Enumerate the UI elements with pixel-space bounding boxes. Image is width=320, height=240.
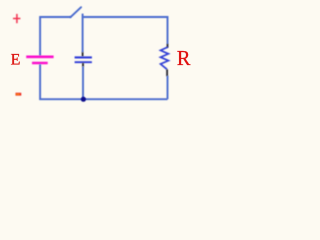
wire: top-right segment and right branch upper [83,17,168,44]
junction dot (capacitor / bottom wire) [81,97,86,102]
wire: top-left segment and left branch upper [40,17,71,56]
label + (battery positive) [13,14,20,23]
resistor R zigzag [161,47,169,69]
switch S (open blade) [71,7,82,17]
wire: left branch lower and bottom segment [40,64,167,99]
wire: capacitor lower lead [82,66,84,99]
capacitor bottom plate [75,61,92,63]
resistor R top lead (black) [167,44,169,48]
svg-text:E: E [11,51,21,68]
wire: right branch lower [167,76,169,99]
label - (battery negative) [16,93,22,96]
capacitor bottom lead (black) [82,63,84,67]
wire: switch right contact stub and capacitor upper lead [82,14,84,53]
battery E short plate (-) [32,62,48,65]
capacitor top plate [75,56,92,58]
svg-text:R: R [177,48,191,70]
battery E long plate (+) [26,55,53,58]
resistor R bottom lead (black) [166,69,168,76]
capacitor top lead (black) [82,52,84,56]
